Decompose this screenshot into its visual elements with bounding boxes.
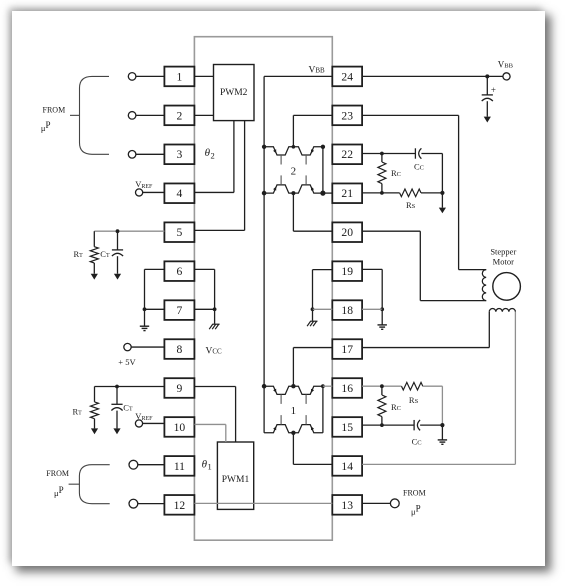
svg-text:+: + — [491, 85, 496, 95]
svg-text:VBB: VBB — [309, 66, 326, 76]
svg-text:Motor: Motor — [493, 257, 514, 267]
svg-text:FROM: FROM — [403, 489, 426, 498]
svg-text:9: 9 — [177, 382, 183, 395]
svg-text:+ 5V: + 5V — [118, 357, 136, 367]
svg-text:VCC: VCC — [206, 346, 223, 356]
svg-text:RT: RT — [73, 406, 83, 416]
svg-text:20: 20 — [341, 226, 353, 239]
svg-text:VBB: VBB — [498, 59, 514, 69]
svg-text:15: 15 — [341, 421, 353, 434]
svg-text:μP: μP — [411, 503, 421, 516]
svg-text:10: 10 — [174, 421, 186, 434]
svg-text:FROM: FROM — [43, 105, 66, 114]
svg-text:24: 24 — [341, 70, 353, 83]
svg-text:RS: RS — [406, 200, 416, 210]
svg-text:VREF: VREF — [135, 179, 153, 190]
svg-text:8: 8 — [177, 343, 183, 356]
svg-text:CT: CT — [100, 249, 110, 259]
svg-text:19: 19 — [341, 265, 353, 278]
svg-text:RC: RC — [391, 168, 401, 178]
svg-text:CT: CT — [123, 403, 133, 413]
svg-text:18: 18 — [341, 304, 353, 317]
svg-text:FROM: FROM — [46, 469, 69, 478]
svg-text:14: 14 — [341, 460, 353, 473]
svg-text:2: 2 — [291, 165, 297, 177]
svg-text:RS: RS — [409, 395, 419, 405]
svg-text:PWM1: PWM1 — [222, 475, 250, 485]
svg-text:RT: RT — [74, 249, 84, 259]
svg-text:17: 17 — [341, 343, 353, 356]
svg-text:6: 6 — [177, 265, 183, 278]
svg-text:16: 16 — [341, 382, 353, 395]
svg-text:4: 4 — [177, 187, 183, 200]
svg-text:RC: RC — [391, 402, 401, 412]
svg-text:3: 3 — [177, 148, 183, 161]
svg-text:2: 2 — [177, 109, 183, 122]
svg-text:CC: CC — [414, 162, 424, 172]
svg-text:θ2: θ2 — [205, 147, 215, 160]
svg-text:5: 5 — [177, 226, 183, 239]
svg-text:μP: μP — [54, 485, 64, 498]
svg-text:θ1: θ1 — [202, 459, 212, 472]
svg-text:CC: CC — [412, 437, 422, 447]
svg-text:23: 23 — [341, 109, 353, 122]
svg-text:12: 12 — [174, 499, 186, 512]
svg-text:22: 22 — [341, 148, 353, 161]
svg-text:Stepper: Stepper — [490, 247, 516, 257]
svg-text:1: 1 — [291, 405, 297, 417]
svg-text:21: 21 — [341, 187, 353, 200]
svg-text:PWM2: PWM2 — [220, 88, 248, 98]
svg-text:μP: μP — [41, 120, 51, 133]
svg-text:1: 1 — [177, 70, 183, 83]
svg-text:11: 11 — [174, 460, 185, 473]
svg-text:13: 13 — [341, 499, 353, 512]
svg-text:7: 7 — [177, 304, 183, 317]
svg-text:VREF: VREF — [135, 411, 153, 422]
